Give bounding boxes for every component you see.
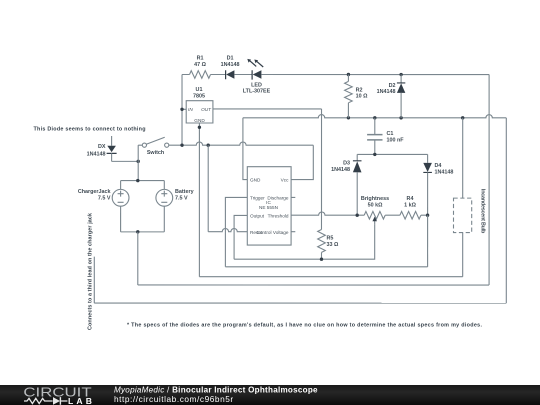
svg-text:Output: Output [250,213,265,218]
svg-text:R5: R5 [326,235,333,241]
svg-text:Trigger: Trigger [250,195,265,200]
wire right main vertical [488,75,490,285]
node U1 IN junction [180,108,183,111]
wire switch to Vcc corner [169,142,314,145]
svg-text:http://circuitlab.com/c96bn5r: http://circuitlab.com/c96bn5r [114,394,234,404]
wire left battery vertical [137,145,139,180]
node C1 top junction [373,116,376,119]
wire R1 to D1 [211,73,226,75]
wire DX to left vertical [112,160,139,162]
svg-text:ChargerJack: ChargerJack [78,189,111,195]
wire threshold rail [291,212,364,215]
svg-text:R1: R1 [197,55,204,61]
diode DX [107,136,117,161]
svg-text:R2: R2 [356,87,363,93]
node R4 right junction [426,214,429,217]
switch SW1 [138,137,169,147]
capacitor C1 [367,118,382,155]
node D2 bottom junction [399,116,402,119]
voltage source Battery [156,181,173,232]
potentiometer Brightness 50k [364,211,385,224]
node D3 bottom junction [355,214,358,217]
wire outer right vertical [505,118,507,303]
wire Vcc drop [291,145,313,179]
svg-text:GND: GND [250,178,261,183]
node reset tap junction [207,143,210,146]
wire Output drop [234,215,247,259]
svg-text:1N4148: 1N4148 [377,89,396,95]
resistor R5 [318,230,326,260]
diode D2 [397,75,405,118]
svg-text:7805: 7805 [193,93,205,99]
svg-text:Battery: Battery [175,189,194,195]
svg-text:10 Ω: 10 Ω [356,94,368,100]
node bulb top junction [461,116,464,119]
svg-text:GND: GND [194,118,205,123]
wire outer bottom rail y303.1 [94,302,506,304]
svg-text:D4: D4 [435,163,442,169]
wire sources top rail [121,180,165,182]
IC U2 555 timer box [247,167,291,245]
wire U1 OUT to descend [213,108,322,110]
svg-text:C1: C1 [387,131,394,137]
node R2 bottom junction [347,116,350,119]
svg-text:D2: D2 [389,83,396,89]
footer bar [0,385,540,405]
svg-text:* The specs of the diodes are: * The specs of the diodes are the progra… [127,322,483,328]
svg-text:OUT: OUT [201,107,212,112]
node switch-R1 junction [180,143,183,146]
svg-text:1N4148: 1N4148 [87,152,106,158]
wire reset vertical from switch [207,145,209,231]
wire third-lead stub [93,257,95,303]
wiper rail y259.2 [234,225,375,259]
wire top rail left vertical (R1/U1 IN feed) [181,74,183,145]
wire D4 vertical continues down [427,215,429,267]
wire 555 GND riser [243,118,247,180]
op-amp U1 7805 regulator box [186,101,213,123]
svg-text:Switch: Switch [147,150,164,156]
svg-text:1N4148: 1N4148 [221,62,240,68]
svg-text:7.5 V: 7.5 V [175,196,188,202]
svg-text:D3: D3 [343,161,350,167]
LED D5 LTL-307EE [247,59,263,80]
wire sources bottom rail [121,231,165,233]
node D2 top junction [399,73,402,76]
lamp incandescent bulb dashed body [453,198,471,232]
wire Reset feed [208,228,247,231]
wire top rail segment to R1 [182,73,190,75]
resistor R2 [345,75,353,118]
node U1 GND junction [198,126,201,129]
svg-text:1N4148: 1N4148 [435,169,454,175]
svg-text:7.5 V: 7.5 V [98,196,111,202]
svg-text:100 nF: 100 nF [387,137,405,143]
wire U1 IN stub [182,108,186,110]
svg-text:1N4148: 1N4148 [331,167,350,173]
node C1 bottom junction [373,153,376,156]
wire mid rail y117.8 [243,115,506,118]
resistor R4 [400,211,421,219]
svg-text:Vcc: Vcc [281,178,289,183]
logo diode [53,397,60,405]
logo resistor zigzag [24,398,53,403]
svg-text:33 Ω: 33 Ω [326,242,338,248]
wire Trigger loop [225,197,247,266]
voltage source ChargerJack [112,181,129,232]
svg-text:Brightness: Brightness [361,196,389,202]
svg-text:Incandescent Bulb: Incandescent Bulb [480,189,486,234]
svg-text:NE 555N: NE 555N [259,205,278,210]
svg-text:D1: D1 [227,55,234,61]
wire LED to top-right corner [261,73,489,75]
diode D1 [226,70,235,79]
svg-text:Control Voltage: Control Voltage [256,230,288,235]
diode D4 [423,154,432,215]
node DX junction [137,160,140,163]
wire bulb bottom rail y276.7 [199,276,462,278]
svg-text:R4: R4 [407,196,414,202]
svg-text:DX: DX [98,144,106,150]
wire trigger bottom rail y266.8 [225,266,427,268]
svg-text:This Diode seems to connect to: This Diode seems to connect to nothing [34,126,146,132]
wire pot to R4 [385,214,400,216]
pin Discharge stub [291,196,295,198]
resistor R1 [190,71,211,79]
svg-text:Connects to a third lead on th: Connects to a third lead on the charger … [87,213,93,330]
wire D1 to LED [234,73,252,75]
lamp incandescent bulb leads [462,118,464,277]
wire OUT vertical down to R5 [320,109,322,230]
svg-text:1 kΩ: 1 kΩ [404,203,416,209]
svg-text:IN: IN [188,107,193,112]
wire U1 GND down [198,123,200,277]
svg-text:U1: U1 [196,87,203,93]
svg-text:50 kΩ: 50 kΩ [368,203,383,209]
node sources top tap [136,179,139,182]
svg-text:LTL-307EE: LTL-307EE [243,89,271,95]
node R2 top junction [347,73,350,76]
node sources bottom tap [136,230,139,233]
pin Control Voltage stub [291,231,295,233]
wire bottom rail y285 [138,284,489,286]
diode D3 [353,154,362,215]
wire R4 to right vertical [421,214,428,216]
wire D3-D4 top rail [357,153,427,155]
svg-text:LAB: LAB [68,396,92,405]
node R5 bottom junction [320,258,323,261]
svg-text:47 Ω: 47 Ω [194,62,206,68]
svg-text:Threshold: Threshold [268,213,289,218]
wire negative drop [137,232,139,285]
